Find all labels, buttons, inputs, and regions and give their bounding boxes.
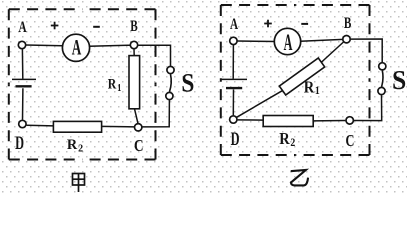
dashed boundary box of circuit 甲	[9, 9, 156, 159]
wire R2 to node D (right)	[238, 119, 264, 121]
battery (right) short plate	[226, 87, 242, 89]
wire node C to R2 (right)	[313, 120, 345, 122]
wire ammeter to node B	[89, 45, 130, 46]
ammeter (right) circle	[274, 28, 300, 54]
wire node A to ammeter (right)	[237, 40, 275, 43]
plus label (right)	[264, 20, 272, 28]
svg-text:B: B	[344, 14, 351, 31]
wire battery to node D (right)	[232, 90, 234, 116]
svg-text:2: 2	[78, 143, 83, 154]
node C (right) circle	[346, 117, 353, 124]
node A (left) circle	[18, 41, 25, 48]
dashed boundary box of circuit 乙	[221, 5, 370, 155]
wire node D to R2	[27, 124, 54, 127]
minus label (right)	[301, 23, 308, 25]
battery (left) long plate	[12, 78, 36, 80]
node D (right) circle	[230, 116, 237, 123]
svg-text:A: A	[72, 35, 82, 59]
svg-text:R: R	[108, 75, 117, 92]
label 甲	[73, 174, 85, 193]
ammeter (left) circle	[62, 34, 89, 61]
minus label (left)	[93, 26, 100, 28]
resistor R1 (left) body	[129, 56, 140, 109]
switch S (right) lever	[382, 71, 383, 87]
wire R2 to node C	[102, 125, 134, 128]
wire switch to node C	[142, 100, 169, 127]
label R2 (left)	[67, 137, 83, 155]
battery (left) short plate	[16, 85, 32, 87]
svg-text:B: B	[130, 17, 137, 34]
svg-text:C: C	[346, 133, 355, 151]
switch S (right) bottom contact	[378, 87, 385, 94]
node C (left) circle	[135, 124, 142, 131]
switch S (left) top contact	[167, 66, 174, 73]
svg-text:2: 2	[290, 137, 295, 150]
node B (right) circle	[343, 36, 350, 43]
wire node A down to battery	[21, 49, 23, 78]
wire switch to node C (right)	[354, 95, 382, 120]
node A (right) circle	[230, 37, 237, 44]
svg-text:R: R	[279, 130, 290, 148]
svg-text:1: 1	[315, 84, 320, 97]
resistor R2 (left) body	[53, 121, 101, 132]
svg-text:S: S	[181, 69, 194, 97]
wire node B to switch corner (right)	[351, 39, 383, 62]
label R1 (right)	[304, 78, 320, 97]
label R2 (right)	[279, 130, 295, 149]
resistor R1 (right) body rotated	[279, 58, 324, 95]
svg-text:A: A	[230, 15, 238, 32]
battery (right) long plate	[221, 78, 247, 80]
svg-text:A: A	[284, 30, 293, 55]
wire diagonal node D to node B through R1 (right)	[237, 42, 344, 117]
svg-text:R: R	[67, 137, 78, 153]
wire node B to switch corner	[138, 45, 170, 66]
wire node A down to battery (right)	[232, 45, 234, 79]
wire R1 to node C	[135, 109, 138, 123]
switch S (left) bottom contact	[166, 92, 173, 99]
plus label (left)	[51, 22, 59, 30]
label 乙	[291, 170, 308, 186]
node D (left) circle	[19, 120, 26, 127]
wire node A to ammeter	[26, 44, 63, 47]
wire ammeter to node B (right)	[300, 39, 342, 41]
svg-text:D: D	[231, 130, 240, 150]
switch S (right) top contact	[379, 63, 386, 70]
wire node B down to R1	[133, 49, 135, 56]
svg-text:D: D	[15, 134, 24, 154]
switch S (left) lever	[170, 74, 172, 91]
wire battery to node D	[22, 88, 24, 120]
resistor R2 (right) body	[263, 116, 313, 127]
svg-text:R: R	[304, 78, 315, 96]
svg-text:A: A	[18, 18, 26, 35]
svg-text:S: S	[392, 65, 406, 95]
label R1 (left)	[108, 75, 122, 94]
node B (left) circle	[130, 41, 137, 48]
svg-text:C: C	[134, 138, 144, 156]
svg-text:1: 1	[117, 83, 121, 94]
